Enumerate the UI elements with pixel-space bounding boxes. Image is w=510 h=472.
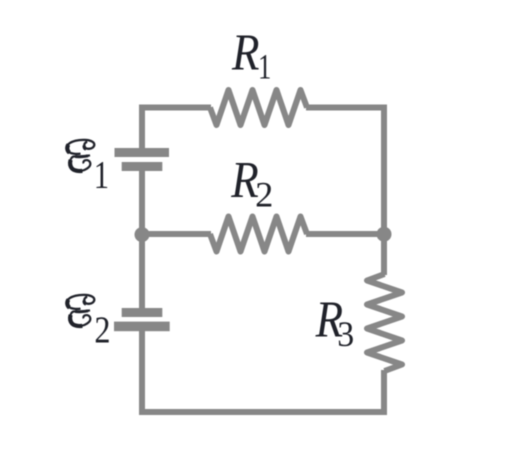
svg-text:1: 1 xyxy=(94,153,109,196)
wire left vertical lower segment xyxy=(139,330,145,415)
wire middle horizontal left segment xyxy=(142,231,211,237)
battery E1 xyxy=(115,148,170,171)
wire right vertical between node and R3 xyxy=(381,234,387,275)
wire top-left vertical segment xyxy=(139,105,145,150)
wire top horizontal left segment xyxy=(139,105,211,111)
wire right vertical upper segment xyxy=(381,105,387,235)
wire left vertical between node and E2 xyxy=(139,234,145,309)
resistor R2 xyxy=(210,217,307,252)
label R1 xyxy=(231,24,271,87)
svg-text:2: 2 xyxy=(94,309,110,351)
node junction right xyxy=(377,227,392,242)
wire left vertical between E1 and node xyxy=(139,170,145,235)
resistor R3 xyxy=(367,274,402,371)
svg-text:3: 3 xyxy=(337,314,354,354)
node junction left xyxy=(135,227,150,242)
wire middle horizontal right segment xyxy=(306,231,384,237)
battery E2 xyxy=(114,308,170,331)
label E2 xyxy=(67,295,111,351)
svg-text:R: R xyxy=(231,24,259,82)
wire bottom horizontal xyxy=(139,409,387,415)
resistor R1 xyxy=(210,90,307,125)
label R3 xyxy=(315,290,354,354)
wire top horizontal right segment xyxy=(306,105,387,111)
label R2 xyxy=(230,151,273,214)
label E1 xyxy=(67,140,109,197)
svg-text:2: 2 xyxy=(255,175,273,215)
wire right vertical lower segment xyxy=(381,370,387,415)
svg-text:1: 1 xyxy=(258,46,271,86)
